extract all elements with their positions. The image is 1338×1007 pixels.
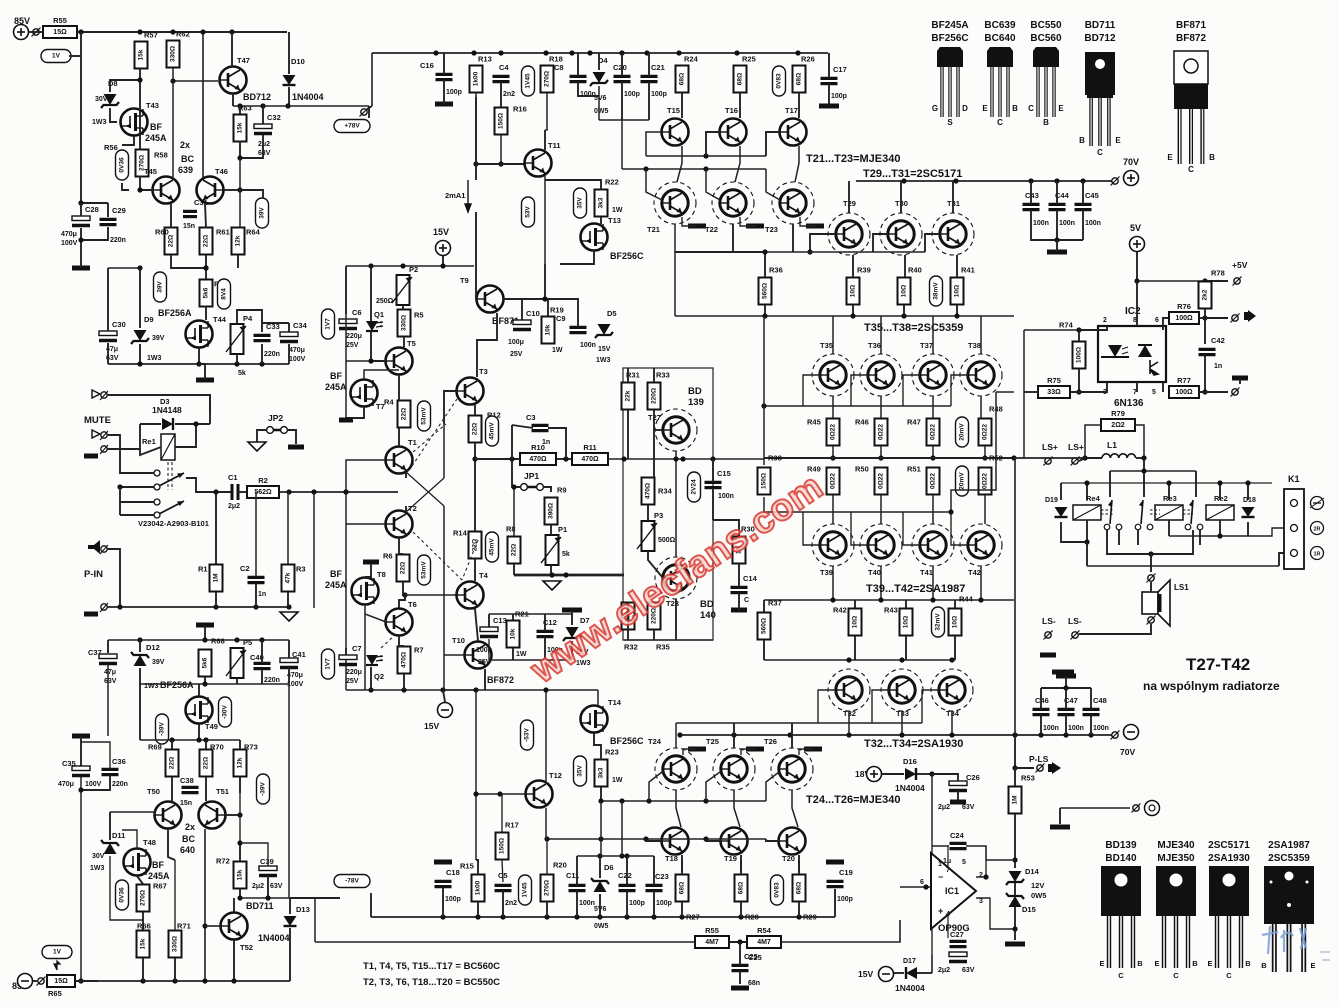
junction (738, 914, 743, 919)
svg-text:30V: 30V (92, 853, 105, 860)
wire T2 emitter to R6 (399, 538, 403, 554)
wire T11 emitter col (544, 176, 546, 264)
wire to D19 (1060, 483, 1062, 500)
junction (203, 737, 208, 742)
junction (1080, 178, 1085, 183)
svg-text:R58: R58 (154, 151, 168, 160)
svg-text:100n: 100n (1085, 220, 1101, 227)
wire R13 down (475, 93, 477, 164)
wire D3 cathode (175, 423, 210, 425)
wire T30 base (873, 234, 888, 252)
wire C40 bottom (261, 669, 263, 684)
terminal -85V (18, 974, 33, 989)
ground triangle P1 (543, 581, 561, 590)
wire R14 top (474, 459, 476, 531)
svg-text:R38: R38 (768, 454, 782, 463)
wire C24 right (966, 846, 986, 860)
svg-text:T39: T39 (820, 568, 833, 577)
wire T35 base (803, 375, 820, 406)
junction (643, 836, 648, 841)
capacitor C2 (240, 564, 266, 598)
wire (1014, 768, 1016, 786)
ground T7 (339, 418, 353, 423)
connector P-LS (1036, 764, 1045, 773)
dashed coupling T5-T1 (381, 424, 462, 648)
svg-text:C17: C17 (833, 65, 847, 74)
svg-text:C38: C38 (180, 776, 194, 785)
svg-text:LS1: LS1 (1174, 583, 1189, 592)
power transistor T29 (828, 213, 870, 255)
junction (137, 361, 142, 366)
power transistor T42 (960, 524, 1002, 566)
terminal +70V (1123, 157, 1139, 186)
wire C45 top (1082, 181, 1084, 204)
svg-text:L1: L1 (1107, 440, 1117, 450)
power transistor T30 (880, 213, 922, 255)
wire (1199, 530, 1201, 545)
svg-text:R40: R40 (908, 266, 922, 275)
svg-text:R53: R53 (1021, 774, 1035, 783)
wire C37 top (107, 640, 109, 653)
svg-text:22Ω: 22Ω (203, 757, 210, 769)
svg-text:6N136: 6N136 (1114, 398, 1144, 409)
wire C43 bottom (1031, 210, 1083, 240)
svg-text:2x: 2x (180, 140, 190, 150)
svg-text:BF: BF (150, 122, 162, 132)
svg-text:D16: D16 (903, 757, 917, 766)
wire R27 top (681, 860, 683, 874)
wire R67 to R66 (142, 912, 144, 930)
wire cross down right (443, 506, 445, 655)
potentiometer P5 (226, 638, 252, 678)
junction (703, 166, 708, 171)
wire Re1 left (140, 424, 161, 455)
power transistor T21 (654, 182, 696, 224)
junction (949, 657, 954, 662)
wire C34 top (288, 323, 290, 332)
relay contact dashes right (1101, 510, 1193, 514)
wire signal to switch (107, 435, 154, 473)
junction (646, 798, 651, 803)
wire D9 col (139, 268, 141, 328)
svg-text:0Ω22: 0Ω22 (982, 424, 989, 440)
junction (196, 361, 201, 366)
wire T7 drain (364, 370, 399, 379)
svg-text:330Ω: 330Ω (401, 315, 408, 331)
svg-text:BF872: BF872 (1176, 33, 1206, 44)
voltage label -53V (521, 720, 534, 750)
junction (1141, 455, 1146, 460)
wire 0V36 low (122, 183, 129, 190)
junction (544, 914, 549, 919)
svg-text:T22: T22 (705, 225, 718, 234)
power transistor T26 inner (779, 756, 805, 782)
wire T37 base (903, 375, 920, 406)
wire D12 top (139, 640, 141, 652)
wire T38 collector (980, 316, 982, 354)
wire T38 base (951, 375, 968, 406)
svg-text:R22: R22 (605, 178, 619, 187)
power transistor T25 (713, 748, 755, 790)
svg-text:+78V: +78V (344, 123, 360, 130)
wire (1059, 808, 1061, 824)
connector LS+ left (1044, 457, 1053, 466)
svg-text:D6: D6 (604, 863, 614, 872)
svg-text:2R: 2R (1313, 527, 1320, 533)
svg-text:BD: BD (700, 599, 714, 610)
wire T36 collector (880, 316, 882, 354)
ground C46-48 (1056, 674, 1076, 679)
ground T23 (806, 224, 824, 229)
svg-text:R50: R50 (855, 465, 869, 474)
voltage label -39V right (257, 774, 270, 804)
svg-text:245A: 245A (325, 382, 347, 392)
junction (237, 840, 242, 845)
wire R35 bottom (653, 630, 655, 640)
svg-text:1W3: 1W3 (147, 355, 162, 362)
capacitor C30 (99, 320, 126, 362)
svg-text:IC1: IC1 (945, 886, 959, 896)
svg-text:220n: 220n (264, 677, 280, 684)
capacitor C41 (280, 658, 304, 688)
wire T25 base feed (706, 772, 720, 801)
svg-text:100Ω: 100Ω (1076, 347, 1083, 363)
wire T12 collector (545, 690, 547, 784)
svg-text:T16: T16 (725, 106, 738, 115)
svg-text:39V: 39V (152, 335, 165, 342)
svg-text:P5: P5 (243, 638, 252, 647)
diode D3 (162, 418, 173, 430)
svg-text:100p: 100p (837, 896, 853, 903)
svg-text:R65: R65 (48, 989, 62, 998)
svg-text:15V: 15V (598, 346, 611, 353)
wire to K1 2R (1248, 528, 1286, 536)
svg-text:Q2: Q2 (374, 672, 384, 681)
voltage label +78V (334, 120, 370, 133)
wire to C26 (932, 774, 958, 781)
junction (78, 978, 83, 983)
wire emitter node (233, 105, 288, 107)
svg-text:100n: 100n (1059, 220, 1075, 227)
wire R44 bottom (954, 636, 956, 660)
resistor R74 (1059, 321, 1086, 369)
wire main col bottom (475, 690, 477, 860)
wire sw3 out (1151, 530, 1193, 554)
svg-text:C19: C19 (839, 868, 853, 877)
junction (949, 732, 954, 737)
svg-text:P4: P4 (243, 314, 253, 323)
ground triangle R3 (280, 612, 298, 621)
capacitor C24 (950, 843, 967, 848)
junction (1202, 389, 1207, 394)
svg-text:45mV: 45mV (489, 538, 496, 556)
svg-text:B: B (1137, 959, 1143, 968)
svg-text:E: E (1058, 104, 1064, 113)
svg-text:470Ω: 470Ω (529, 456, 547, 463)
wire T21 gnd stub (682, 217, 697, 226)
wire C11 top (576, 856, 578, 885)
wire T3 base (444, 391, 457, 424)
svg-text:P-IN: P-IN (84, 569, 103, 580)
connector +5V (1233, 277, 1242, 286)
wire D11 bottom (110, 856, 143, 920)
junction (1054, 178, 1059, 183)
resistor R31 (622, 371, 640, 410)
svg-text:100p: 100p (445, 896, 461, 903)
svg-text:150Ω: 150Ω (498, 113, 505, 129)
svg-text:R70: R70 (210, 743, 224, 752)
wire C32 top (262, 106, 264, 124)
svg-text:C: C (1226, 971, 1232, 980)
wire JP1 right (543, 487, 551, 492)
capacitor C13 (480, 616, 507, 637)
junction (137, 187, 142, 192)
ground LS- (1040, 653, 1056, 658)
svg-text:T34: T34 (946, 709, 960, 718)
wire T51 collector column (204, 829, 206, 981)
svg-text:63V: 63V (104, 678, 117, 685)
power transistor T26 (771, 748, 813, 790)
junction (117, 484, 122, 489)
wire D6 column (600, 801, 602, 856)
power transistor T36 (860, 354, 902, 396)
package TO-220 BF871/BF872 (1167, 20, 1215, 174)
wire Re3 bottom (1168, 520, 1170, 536)
wire R3 top (287, 492, 289, 564)
wire JP2 left (257, 430, 267, 442)
junction (1054, 237, 1059, 242)
diode D17 (906, 967, 917, 979)
wire C46-48 top (1041, 687, 1091, 689)
resistor R23 (595, 748, 619, 787)
wire R22 top (545, 180, 601, 190)
svg-text:1N4004: 1N4004 (895, 983, 925, 993)
svg-text:R73: R73 (244, 743, 258, 752)
wire 15V stub (442, 256, 444, 266)
svg-text:R67: R67 (153, 882, 167, 891)
capacitor C25 (732, 952, 758, 971)
wire C30 bottom (107, 343, 109, 364)
voltage label 35V bottom (574, 756, 587, 786)
svg-text:C34: C34 (293, 321, 308, 330)
potentiometer P2 (392, 265, 418, 305)
svg-text:33Ω: 33Ω (1047, 389, 1061, 396)
terminal 1R (1311, 547, 1324, 560)
junction (402, 592, 407, 597)
svg-text:10Ω: 10Ω (954, 285, 961, 297)
svg-text:100p: 100p (629, 900, 645, 907)
connector -85V (37, 977, 46, 986)
junction (1084, 480, 1089, 485)
capacitor C47 (1058, 696, 1084, 732)
svg-text:2n2: 2n2 (503, 91, 515, 98)
svg-text:D18: D18 (1243, 497, 1256, 504)
wire C13 top (488, 614, 490, 627)
resistor R46 (855, 418, 888, 446)
junction (500, 914, 505, 919)
capacitor C39 (259, 866, 277, 876)
svg-text:S: S (947, 118, 953, 127)
diode D13 (284, 916, 297, 926)
connector 70V- (1111, 731, 1120, 740)
svg-text:R2: R2 (258, 476, 268, 485)
svg-text:0V83: 0V83 (774, 882, 781, 898)
wire IC1 input (900, 886, 931, 888)
resistor R77 (1169, 376, 1199, 398)
wire top center rail (372, 52, 828, 54)
svg-text:T27-T42: T27-T42 (1186, 655, 1250, 674)
zener D11 (101, 840, 119, 854)
wire (996, 391, 1014, 393)
wire R62 to T45 collector (172, 68, 174, 177)
wire T51 base (225, 814, 240, 816)
wire T24 base feed (649, 772, 662, 801)
svg-text:BD711: BD711 (246, 901, 274, 911)
wire to sw3 (1195, 471, 1197, 497)
svg-text:R55: R55 (705, 926, 719, 935)
wire T47 base (173, 80, 218, 82)
svg-text:1W: 1W (552, 347, 563, 354)
svg-text:JP2: JP2 (268, 413, 283, 423)
package 2SC5171/2SA1930 (1207, 840, 1251, 980)
wire T48 to R67 (137, 876, 143, 884)
junction (1134, 278, 1139, 283)
svg-text:T1: T1 (408, 438, 417, 447)
wire R31 down (627, 410, 629, 459)
svg-text:C10: C10 (526, 309, 540, 318)
resistor R42 (833, 606, 862, 636)
svg-text:100V: 100V (61, 240, 78, 247)
wire pin 2 (1079, 326, 1107, 330)
junction (930, 455, 935, 460)
junction (901, 178, 906, 183)
relay switch 1 (1104, 500, 1122, 530)
junction (762, 313, 767, 318)
wire T29 emitter to R39 (852, 255, 854, 277)
svg-text:35V: 35V (577, 197, 584, 209)
wire C46 top (1040, 688, 1042, 709)
wire D15 down (1014, 907, 1016, 929)
wire T47 emitter down (232, 93, 234, 106)
junction (543, 687, 548, 692)
svg-text:12k: 12k (235, 235, 242, 246)
svg-text:25V: 25V (346, 678, 359, 685)
wire C1 to R2 (238, 491, 247, 493)
voltage label 53mV T2 (418, 555, 431, 585)
wire L1 right (1136, 457, 1144, 459)
svg-text:P2: P2 (409, 265, 418, 274)
junction (899, 657, 904, 662)
svg-text:10Ω: 10Ω (852, 616, 859, 628)
resistor R39 (847, 266, 871, 305)
transistor T46 (197, 167, 228, 204)
junction (1076, 389, 1081, 394)
junction (676, 50, 681, 55)
wire C48 top (1090, 688, 1092, 709)
wire R42 bottom (854, 636, 856, 660)
wire (443, 655, 445, 690)
svg-text:T11: T11 (548, 141, 561, 150)
wire T12 base (476, 793, 526, 795)
wire D14 D15 (1014, 883, 1016, 896)
svg-text:45mV: 45mV (489, 422, 496, 440)
svg-text:2Ω2: 2Ω2 (1111, 422, 1125, 429)
wire T27 base (654, 429, 663, 431)
svg-text:T8: T8 (377, 570, 386, 579)
junction (1217, 480, 1222, 485)
svg-text:−: − (938, 872, 943, 882)
potentiometer P3 (637, 511, 663, 551)
wire T6 emitter to R7 (399, 636, 404, 646)
wire emitter res to out rail (984, 446, 986, 458)
svg-text:22Ω: 22Ω (511, 544, 518, 556)
resistor R17 (496, 821, 519, 860)
svg-text:C: C (1173, 971, 1179, 980)
wire T26 emitter (792, 790, 798, 827)
power transistor T31 (932, 213, 974, 255)
svg-text:R69: R69 (148, 743, 162, 752)
wire C18 bottom (442, 887, 444, 917)
junction (368, 263, 373, 268)
input connector signal (92, 430, 108, 440)
resistor R79 (1101, 409, 1135, 431)
wire T46 collector column (202, 32, 204, 178)
svg-text:0W5: 0W5 (594, 108, 609, 115)
wire C39 bottom (267, 875, 269, 898)
wire C33 top (261, 323, 263, 332)
wire R15 bottom (477, 902, 479, 917)
wire C25 top (739, 942, 741, 965)
junction (440, 687, 445, 692)
svg-text:T12: T12 (549, 771, 562, 780)
svg-text:30V: 30V (95, 96, 108, 103)
svg-text:T24...T26=MJE340: T24...T26=MJE340 (806, 794, 900, 806)
transistor T4 (457, 571, 489, 609)
wire T31 emitter to R41 (956, 255, 958, 277)
svg-text:15Ω: 15Ω (53, 29, 67, 36)
svg-text:T15: T15 (667, 106, 680, 115)
svg-text:BC560: BC560 (1030, 33, 1062, 44)
svg-text:T49: T49 (205, 722, 218, 731)
voltage label 53V (522, 197, 535, 227)
svg-text:R25: R25 (742, 55, 756, 64)
resistor R14 (453, 529, 482, 559)
wire T46 emitter (205, 203, 206, 228)
transistor T3 (457, 367, 488, 405)
resistor R30 (733, 525, 755, 564)
svg-text:BC: BC (181, 154, 194, 164)
wire to lower bank (932, 495, 934, 524)
wire C3 left (511, 425, 513, 459)
svg-text:na wspólnym radiatorze: na wspólnym radiatorze (1143, 679, 1280, 693)
power transistor T36 inner (868, 362, 894, 388)
wire LS- to speaker (1079, 624, 1151, 634)
wire T21 emitter down (675, 224, 793, 252)
junction (644, 50, 649, 55)
svg-text:245A: 245A (325, 580, 347, 590)
svg-text:390Ω: 390Ω (548, 503, 555, 519)
wire T40 base (851, 512, 868, 545)
svg-text:BF871: BF871 (1176, 20, 1206, 31)
switch contacts S1 (154, 470, 184, 490)
svg-text:5k6: 5k6 (202, 657, 209, 668)
terminal 2R (1311, 522, 1324, 535)
svg-text:T25: T25 (706, 737, 719, 746)
wire (75, 980, 98, 982)
svg-text:C13: C13 (493, 616, 507, 625)
svg-text:R43: R43 (884, 606, 898, 615)
wire C4 to R16 (500, 82, 502, 107)
